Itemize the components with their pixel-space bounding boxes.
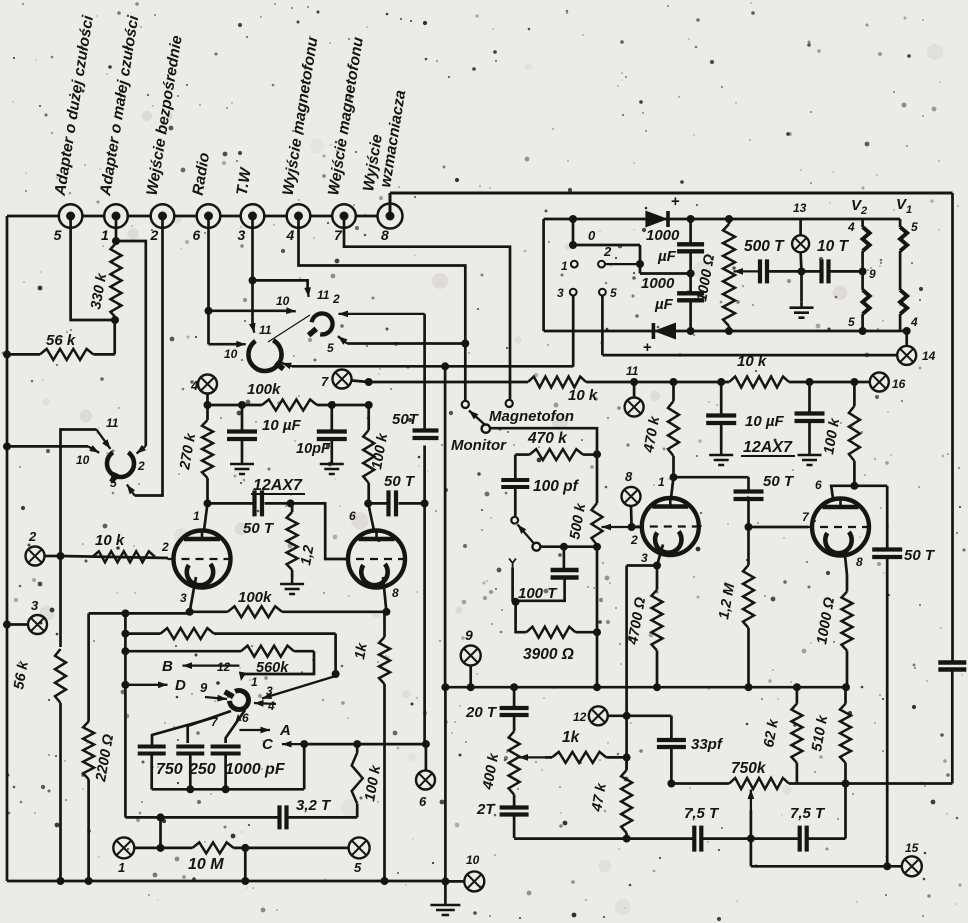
- node B+ 368: [365, 378, 373, 386]
- svg-text:D: D: [175, 677, 186, 694]
- label 2T: [476, 801, 496, 818]
- capacitor 2T: [500, 795, 529, 838]
- label 510k: [809, 713, 831, 752]
- wire tone top drop: [334, 634, 337, 672]
- svg-text:+: +: [671, 193, 680, 210]
- connector name Wejście magnetofonu: [325, 36, 367, 197]
- label lamp 13 output: [905, 841, 919, 855]
- wire plateV2b to 50T4: [854, 484, 887, 487]
- wire tone rotor to cap1000: [226, 710, 245, 743]
- svg-text:2T: 2T: [476, 801, 496, 818]
- arrow tone B: [183, 662, 240, 669]
- resistor 4700: [652, 566, 663, 688]
- wire 330k bottom to 56k: [113, 320, 116, 354]
- label node 11: [626, 364, 639, 378]
- node 50T2 right: [421, 499, 429, 507]
- lamp 11: [625, 398, 644, 417]
- wire lamp1 drop: [159, 817, 162, 848]
- svg-text:+: +: [643, 339, 652, 356]
- label tone 12: [217, 660, 231, 674]
- capacitor 50T output: [872, 486, 902, 867]
- svg-text:100k: 100k: [238, 589, 272, 606]
- svg-text:1: 1: [658, 475, 665, 489]
- svg-text:10 M: 10 M: [188, 856, 224, 873]
- wire plate V1a: [204, 503, 208, 530]
- svg-text:10 k: 10 k: [95, 532, 125, 549]
- switch S4 spare contact: [509, 559, 516, 568]
- label 100k tail: [238, 589, 272, 606]
- label 10k second: [737, 353, 767, 370]
- label 56k horizontal: [46, 332, 76, 349]
- svg-text:50 T: 50 T: [763, 473, 795, 490]
- wire terminal 6 drop: [207, 217, 210, 344]
- wire PSU tap0: [572, 219, 575, 245]
- connector name Radio: [190, 151, 214, 196]
- wire 56k vertical to rail: [59, 703, 62, 881]
- label 2200 ohm: [93, 732, 117, 783]
- label pin1 V2a: [658, 475, 665, 489]
- lamp 14: [897, 346, 916, 365]
- resistor 270k: [202, 405, 213, 503]
- wire decoupling y405: [208, 404, 369, 407]
- terminal label 7: [334, 227, 343, 243]
- node 2200 rail: [85, 877, 93, 885]
- connector name Adapter o małej czułości: [97, 14, 142, 198]
- node 1k right: [623, 753, 631, 761]
- node terminal6 branch: [205, 307, 213, 315]
- node lamp15 x887: [883, 862, 891, 870]
- svg-text:9: 9: [465, 627, 473, 643]
- svg-text:50 T: 50 T: [243, 520, 275, 537]
- svg-text:56 k: 56 k: [46, 332, 76, 349]
- svg-text:4: 4: [190, 378, 199, 393]
- node tone bus 633: [121, 630, 129, 638]
- svg-text:50T: 50T: [392, 411, 420, 428]
- svg-text:7,5 T: 7,5 T: [684, 805, 720, 822]
- wire pivot2 run: [540, 545, 597, 548]
- node 10M left: [157, 844, 165, 852]
- label lamp 10: [466, 853, 480, 867]
- label tone 7: [211, 715, 219, 729]
- node 10k tap: [57, 552, 65, 560]
- wire terminal 4 drop: [299, 217, 466, 401]
- label pin3 V1a: [180, 591, 187, 605]
- svg-text:100 T: 100 T: [518, 585, 558, 602]
- label switch1 contact 5: [110, 476, 117, 490]
- svg-text:10 µF: 10 µF: [262, 417, 301, 434]
- svg-text:5: 5: [911, 220, 918, 234]
- arrow S2 contact 10: [286, 307, 296, 314]
- label 56k vertical: [11, 659, 32, 690]
- wire mid rail: [444, 686, 848, 689]
- label 1k: [352, 641, 371, 661]
- wire cathode left run: [627, 566, 657, 771]
- wire tone bus left: [124, 613, 127, 817]
- resistor 1k: [379, 612, 390, 881]
- node filter mid: [687, 270, 695, 278]
- svg-text:1k: 1k: [562, 729, 581, 746]
- svg-text:2: 2: [150, 227, 159, 243]
- arrow S2b contact 10: [236, 341, 246, 348]
- capacitor 50T interstage2: [734, 477, 764, 527]
- label V2 pin5: [848, 315, 855, 329]
- arrow S2 contact 2: [339, 311, 425, 318]
- node 1000ohm top: [725, 215, 733, 223]
- wire grid V1a feed: [61, 556, 169, 558]
- node 470k top: [670, 378, 678, 386]
- label 1000pF: [225, 761, 286, 778]
- switch S3 blade: [469, 411, 486, 426]
- terminal 5: [59, 204, 83, 228]
- resistor 1000 ohm cathode: [842, 575, 853, 687]
- triode V2b: [806, 499, 875, 556]
- node V2 bottom: [859, 327, 867, 335]
- capacitor 50T series: [413, 431, 439, 504]
- terminal label 5: [54, 227, 62, 243]
- label 1000uF second: [641, 275, 675, 313]
- node 56k left border: [3, 350, 11, 358]
- node 50T1 right: [287, 499, 295, 507]
- label 560k: [256, 660, 289, 676]
- terminal label 4: [286, 227, 295, 243]
- svg-text:3: 3: [238, 227, 246, 243]
- node terminal3 branch: [249, 276, 257, 284]
- ground PSU: [790, 271, 814, 317]
- resistor 1.2M: [743, 527, 754, 687]
- node heater filter mid: [798, 267, 806, 275]
- svg-text:10 T: 10 T: [817, 238, 850, 255]
- node plate1 first: [204, 499, 212, 507]
- wire pivot to 500k: [490, 428, 598, 454]
- wire selector output y366: [292, 365, 573, 368]
- svg-text:8: 8: [381, 227, 389, 243]
- wire 750k right: [789, 782, 951, 785]
- label V1 pin5: [911, 220, 918, 234]
- node rail 797: [793, 683, 801, 691]
- label Magnetofon: [489, 408, 574, 425]
- wire plate V2b: [831, 486, 854, 499]
- node rail 514: [510, 683, 518, 691]
- wire x425 to C wire: [423, 503, 426, 744]
- rotary switch S2b rotor: [248, 340, 283, 371]
- wire wiper to V2a grid: [632, 526, 642, 529]
- connector name T.W: [234, 166, 255, 197]
- capacitor output right edge: [938, 193, 966, 784]
- node low rail 751: [747, 835, 755, 843]
- svg-text:10: 10: [224, 347, 238, 361]
- label tone 1: [251, 675, 258, 689]
- arrow tone A: [239, 727, 270, 734]
- wire box bottom: [125, 816, 278, 819]
- terminal label 6: [193, 227, 201, 243]
- svg-text:33pf: 33pf: [691, 736, 724, 753]
- label tone 4: [267, 699, 275, 713]
- label 10M: [188, 856, 224, 873]
- label 33pf: [691, 736, 724, 753]
- svg-text:20 T: 20 T: [465, 704, 498, 721]
- node 100k top right: [850, 378, 858, 386]
- label 100T: [518, 585, 558, 602]
- resistor 2200 ohm: [83, 613, 94, 881]
- svg-text:250: 250: [188, 761, 216, 778]
- label 12AX7 first: [251, 477, 305, 494]
- wire lamp2 stub: [45, 555, 61, 558]
- ground 10pF: [320, 458, 344, 474]
- switch S4 blade: [518, 525, 535, 544]
- connector name Wyjście magnetofonu: [280, 36, 322, 197]
- capacitor 7.5T second: [800, 784, 846, 852]
- svg-text:16: 16: [892, 377, 906, 391]
- wire lamp1 to 10M: [134, 847, 192, 850]
- wire PSU bottom rail: [544, 330, 901, 333]
- svg-text:2: 2: [161, 540, 169, 554]
- wire terminal 1 drop: [115, 217, 118, 241]
- label tone B: [162, 658, 173, 675]
- capacitor 10pF: [317, 405, 347, 458]
- node 100T top: [560, 543, 568, 551]
- wire bottom rail left: [7, 880, 445, 883]
- arrow 500k wiper: [602, 524, 632, 531]
- svg-text:10: 10: [76, 453, 90, 467]
- label pin 9: [869, 267, 876, 281]
- svg-text:13: 13: [793, 201, 807, 215]
- node 3900 right: [593, 628, 601, 636]
- wire left border: [6, 216, 9, 881]
- svg-text:5: 5: [354, 860, 362, 875]
- node heater tap V2: [859, 267, 867, 275]
- svg-text:2: 2: [332, 292, 340, 306]
- label lamp 5: [354, 860, 362, 875]
- resistor 330k: [111, 243, 122, 318]
- node box bottom tap: [157, 813, 165, 821]
- svg-text:100k: 100k: [247, 381, 281, 398]
- label plus top: [671, 193, 680, 210]
- svg-text:A: A: [279, 722, 291, 739]
- capacitor 10uF first: [706, 382, 736, 449]
- wire plate V1b: [368, 503, 374, 530]
- arrow tone wiper 12: [239, 651, 314, 681]
- terminal 2: [151, 204, 175, 228]
- label S2 contact 2: [332, 292, 340, 306]
- capacitor 50T out1: [368, 490, 424, 516]
- node PSU 2 join: [636, 260, 644, 268]
- svg-text:15: 15: [905, 841, 919, 855]
- svg-text:12: 12: [217, 660, 231, 674]
- wire terminal 2 drop to contact 5: [135, 217, 163, 496]
- capacitor 250pF: [176, 747, 204, 790]
- svg-text:1: 1: [101, 227, 109, 243]
- wire S2-2 vertical top: [423, 314, 426, 429]
- diode rectifier top: [645, 211, 668, 228]
- wire terminal 3 drop: [251, 217, 254, 280]
- node border contact10: [3, 442, 11, 450]
- wire V1b grid: [291, 503, 347, 559]
- svg-text:6: 6: [349, 509, 356, 523]
- wire grid V2b: [749, 526, 809, 529]
- label 4700: [625, 595, 649, 646]
- lamp 15 output: [902, 856, 922, 876]
- wire lamp8 stub: [630, 506, 633, 527]
- capacitor 1000uF first: [677, 219, 704, 274]
- resistor 56k vertical: [55, 649, 66, 703]
- resistor 510k: [840, 687, 851, 783]
- wire lamp11 stub: [633, 382, 636, 398]
- arrow tone contact 3: [262, 676, 336, 699]
- svg-text:3: 3: [641, 551, 648, 565]
- label S2 contact 5: [327, 341, 334, 355]
- svg-text:0: 0: [588, 228, 596, 243]
- label 1.2M: [716, 581, 738, 620]
- node lamp12 x626: [623, 712, 631, 720]
- label switch1 contact 2: [137, 459, 145, 473]
- label V1: [896, 196, 912, 216]
- lamp 13 PSU: [792, 235, 809, 252]
- wire 10M down: [244, 848, 247, 881]
- node plate V1b: [364, 499, 372, 507]
- diode rectifier bottom: [653, 323, 676, 340]
- node tone bus top: [121, 609, 129, 617]
- resistor 10k grid1: [93, 551, 156, 562]
- label tone D: [175, 677, 186, 694]
- node terminal1 junction: [112, 237, 120, 245]
- terminal 8: [378, 204, 403, 229]
- label 100pf: [533, 478, 580, 495]
- wire cathode V1a: [190, 577, 196, 612]
- svg-text:4: 4: [267, 699, 275, 713]
- wire cathode V1b: [383, 577, 386, 612]
- connector name Wejście bezpośrednie: [144, 34, 186, 197]
- node 1000ohm bottom: [725, 327, 733, 335]
- label lamp 16: [892, 377, 906, 391]
- switch PSU contact 1: [571, 261, 578, 268]
- svg-text:2: 2: [137, 459, 145, 473]
- label lamp 3: [31, 598, 39, 613]
- capacitor 7.5T first: [694, 826, 798, 852]
- wire PSU contact5 drop: [602, 296, 897, 356]
- wire PSU 0 to 2: [573, 245, 691, 274]
- svg-text:8: 8: [625, 469, 633, 484]
- label lamp 14: [922, 349, 936, 363]
- svg-text:9: 9: [200, 680, 208, 695]
- svg-text:50 T: 50 T: [384, 473, 416, 490]
- svg-text:4: 4: [910, 315, 918, 329]
- label 1000 ohm cathode: [814, 595, 838, 645]
- svg-text:3: 3: [266, 684, 273, 698]
- lamp 9: [461, 646, 481, 666]
- svg-text:750: 750: [156, 761, 183, 778]
- label lamp 6: [419, 794, 427, 809]
- svg-text:4: 4: [847, 220, 855, 234]
- lamp 1: [113, 837, 134, 858]
- label lamp 2: [28, 529, 37, 544]
- node rail lamp9: [467, 683, 475, 691]
- label 100k top right: [821, 416, 843, 455]
- label lamp 13 PSU: [793, 201, 807, 215]
- connector name Adapter o dużej czułości: [52, 14, 97, 198]
- label 1000uF first: [646, 227, 680, 265]
- svg-text:2: 2: [603, 244, 612, 259]
- capacitor 100pf: [501, 455, 529, 517]
- node ground bus top: [441, 362, 449, 370]
- wire C run: [308, 743, 426, 746]
- terminal 7: [332, 204, 356, 228]
- label 47k: [589, 781, 610, 813]
- wire tone contact7 to cap750: [152, 717, 216, 745]
- svg-text:5: 5: [54, 227, 62, 243]
- resistor 56k horizontal: [40, 349, 93, 360]
- wire V1 bottom ext: [900, 331, 907, 346]
- terminal 4: [287, 204, 311, 228]
- svg-text:Magnetofon: Magnetofon: [489, 408, 574, 425]
- svg-text:12AX7: 12AX7: [743, 439, 793, 456]
- node 368 y405: [365, 401, 373, 409]
- switch S4 contact: [511, 517, 518, 524]
- node C 357: [353, 740, 361, 748]
- switch S3 pivot: [482, 424, 490, 432]
- wire lamp3 stub: [7, 623, 28, 626]
- svg-text:11: 11: [626, 364, 639, 378]
- node PSU tap0 top: [569, 215, 577, 223]
- resistor 1.2M grid leak: [287, 503, 298, 578]
- switch PSU contact 3: [570, 289, 577, 296]
- label 3900: [523, 646, 574, 663]
- node 33pf bottom: [667, 780, 675, 788]
- label 12AX7 second: [741, 439, 795, 456]
- ground 1.2M: [280, 578, 304, 594]
- wire T3 to S2 contact 11: [253, 280, 308, 288]
- arrow switch1 contact 11: [97, 430, 111, 449]
- svg-text:1000 pF: 1000 pF: [225, 761, 286, 778]
- node grid V2b net: [745, 523, 753, 531]
- svg-text:7: 7: [321, 374, 329, 389]
- label 400k: [480, 751, 502, 791]
- arrow tone D: [125, 681, 167, 688]
- capacitor 1000uF second: [677, 274, 704, 332]
- wire plate V2a: [671, 477, 674, 498]
- wire ground bus: [444, 366, 447, 899]
- wire S2 gang link: [268, 315, 310, 342]
- arrow tone C: [282, 741, 308, 748]
- svg-text:8: 8: [392, 586, 399, 600]
- label 50T interstage1: [243, 520, 275, 537]
- node 10uF1 top: [717, 378, 725, 386]
- arrow 1000 wiper: [734, 268, 759, 275]
- label PSU 1: [561, 259, 568, 273]
- label lamp 9: [465, 627, 473, 643]
- terminal 1: [104, 204, 128, 228]
- ground 10uF left: [230, 458, 254, 474]
- label 10uF left: [262, 417, 301, 434]
- label S2b contact 10: [224, 347, 238, 361]
- node filter top: [687, 215, 695, 223]
- ground 10uF first: [709, 449, 733, 465]
- svg-text:1: 1: [251, 675, 258, 689]
- wire cathode V2b: [845, 556, 847, 576]
- node 10uF2 top: [806, 378, 814, 386]
- terminal label 2: [150, 227, 159, 243]
- node rail 845: [842, 683, 850, 691]
- label S2b contact 11: [259, 323, 272, 337]
- wire T3 to S2b contact 11: [251, 280, 254, 325]
- wire S4 spare drop: [511, 567, 514, 601]
- label 750pF: [156, 761, 183, 778]
- arrow S2 contact 11: [304, 287, 311, 297]
- wire treble line: [671, 782, 729, 785]
- label switch1 contact 11: [106, 416, 119, 430]
- label S2 contact 10: [276, 294, 290, 308]
- switch S4 pivot: [532, 543, 540, 551]
- svg-text:10 µF: 10 µF: [745, 413, 784, 430]
